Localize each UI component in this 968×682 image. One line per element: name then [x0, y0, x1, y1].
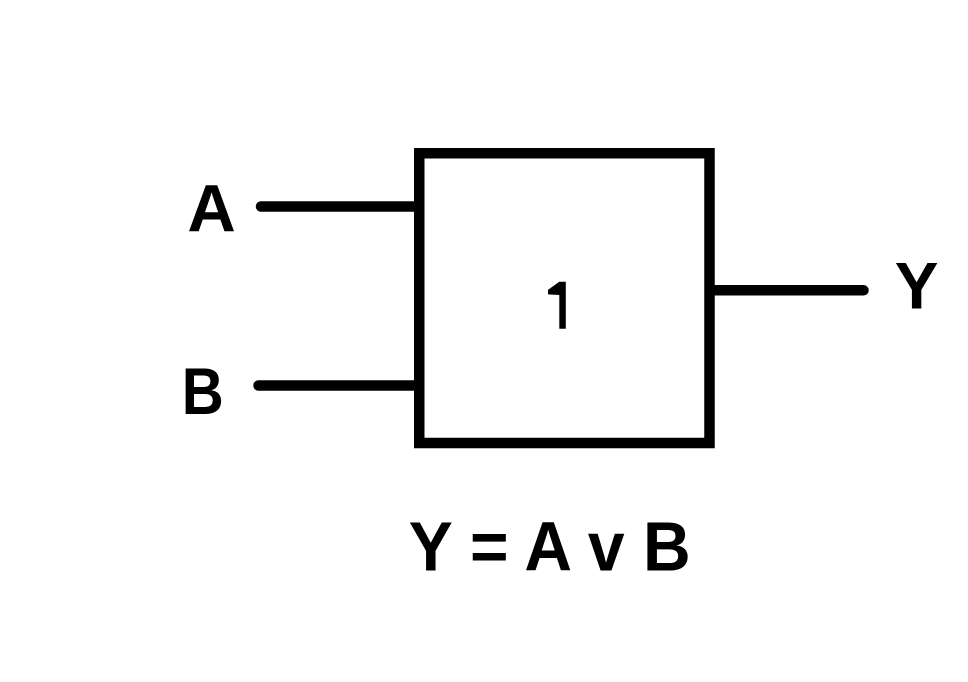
wire input A — [261, 201, 418, 212]
svg-text:Y: Y — [895, 250, 939, 323]
wire output Y — [711, 285, 864, 296]
gate function label 1 — [548, 282, 566, 329]
svg-text:Y = A v B: Y = A v B — [409, 507, 691, 585]
svg-text:A: A — [187, 171, 235, 246]
wire input B — [259, 380, 419, 391]
svg-text:B: B — [182, 354, 224, 428]
OR gate U1 (IEC box symbol) — [419, 153, 709, 443]
